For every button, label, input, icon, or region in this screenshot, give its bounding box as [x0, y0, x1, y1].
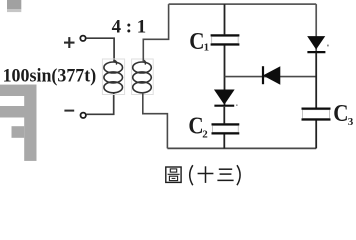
caption: 三	[217, 169, 233, 180]
plus terminal circle	[80, 36, 85, 41]
caption: （	[190, 165, 193, 185]
secondary winding L2	[133, 60, 152, 93]
wire: top rail	[169, 3, 317, 5]
caption: 圖 (drawn)	[166, 167, 181, 182]
minus terminal circle	[81, 113, 86, 118]
primary winding L1	[104, 60, 123, 93]
capacitor C3	[302, 109, 331, 120]
capacitor C2	[212, 124, 240, 133]
speck	[327, 45, 329, 47]
plus terminal sign	[64, 37, 75, 48]
minus terminal sign	[64, 110, 74, 112]
wire: top rail right corner down to D3	[315, 4, 317, 51]
svg-text:100sin(377t): 100sin(377t)	[3, 65, 97, 87]
wire: C3 to bottom rail	[315, 121, 317, 149]
svg-text:3: 3	[348, 116, 354, 128]
wire: secondary top to top rail	[143, 4, 168, 62]
svg-text:C: C	[189, 28, 204, 55]
label C2	[188, 112, 208, 140]
watermark vertical bar	[24, 85, 36, 161]
caption: 十	[198, 166, 214, 183]
wire: secondary bottom to bottom rail	[143, 92, 168, 148]
speck	[236, 104, 238, 106]
scan artifact gray square top-left	[7, 0, 21, 12]
wire: C1 to mid node	[224, 46, 226, 106]
wire: C2 to bottom rail	[223, 134, 225, 148]
wire: D3 down to C3	[315, 53, 317, 108]
diode D3 (points down, right branch)	[307, 37, 328, 53]
watermark gray bar 1	[0, 85, 37, 96]
wire: top rail down to C1	[224, 4, 226, 34]
wire: D1 to C2	[223, 107, 225, 124]
wire: middle horizontal	[225, 76, 317, 78]
primary coil box artifact	[102, 59, 124, 95]
svg-text:2: 2	[202, 129, 208, 141]
wire: + terminal to primary top	[86, 38, 114, 62]
caption: ）	[237, 165, 240, 185]
wire: primary bottom to - terminal	[86, 92, 113, 114]
wire: bottom rail	[167, 147, 316, 149]
label C1	[189, 28, 209, 55]
watermark gray bar 2	[0, 106, 37, 118]
svg-text:4 : 1: 4 : 1	[112, 17, 147, 38]
watermark small square	[12, 126, 25, 138]
secondary coil box artifact	[132, 59, 154, 95]
capacitor C1	[211, 35, 240, 44]
svg-text:C: C	[333, 100, 348, 127]
diode D2 (points left, on middle wire)	[263, 66, 280, 84]
label C3	[333, 100, 354, 128]
diode D1 (points down, above C2)	[214, 90, 237, 106]
svg-text:1: 1	[204, 41, 210, 53]
